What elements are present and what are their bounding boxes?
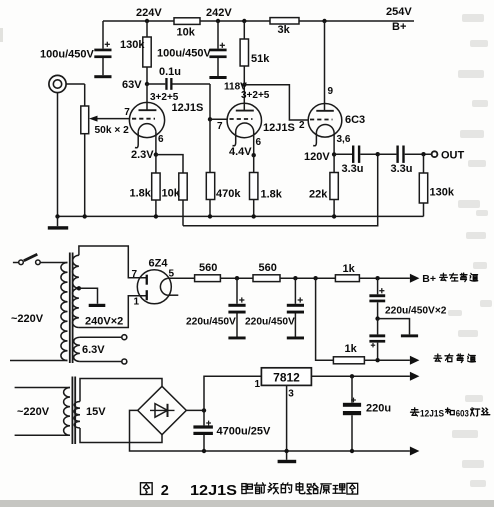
T2 primary leads xyxy=(15,387,70,389)
node 224V xyxy=(145,19,149,23)
node 220u top xyxy=(350,374,354,378)
svg-text:6Z4: 6Z4 xyxy=(149,258,169,270)
svg-text:242V: 242V xyxy=(206,7,232,19)
svg-text:120V: 120V xyxy=(304,151,330,163)
transformer T2 secondary 15V xyxy=(74,402,80,429)
svg-text:63V: 63V xyxy=(122,79,142,91)
wire 240V bottom to 6Z4 pin1 xyxy=(79,296,146,328)
resistor 51k (V2 plate load) xyxy=(243,21,245,39)
svg-text:B+: B+ xyxy=(422,273,436,285)
wire bridge plus to 7812 input xyxy=(186,409,204,411)
node 242V xyxy=(216,19,220,23)
caption xyxy=(140,483,152,495)
wire jack sleeve to ground xyxy=(57,93,59,217)
svg-text:B+: B+ xyxy=(392,21,406,33)
svg-text:9: 9 xyxy=(328,86,334,97)
arrow heater ground xyxy=(410,447,420,456)
svg-text:50k × 2: 50k × 2 xyxy=(95,125,130,136)
svg-text:12J1S: 12J1S xyxy=(172,102,204,114)
svg-text:470k: 470k xyxy=(216,188,241,200)
svg-text:12J1S: 12J1S xyxy=(263,122,295,134)
svg-text:3: 3 xyxy=(288,389,294,400)
feedback line xyxy=(183,154,378,226)
svg-text:12J1S: 12J1S xyxy=(420,409,444,420)
transformer T1 core xyxy=(69,253,71,364)
svg-text:2: 2 xyxy=(299,120,305,131)
svg-text:1: 1 xyxy=(255,379,261,390)
wire 15V bottom to bridge xyxy=(80,428,162,443)
capacitor 100u/450V (first filter) xyxy=(102,21,104,49)
svg-text:3.3u: 3.3u xyxy=(342,163,364,175)
svg-text:~220V: ~220V xyxy=(17,406,50,418)
resistor 1.8k (V2 cathode) xyxy=(253,155,255,172)
6.3V terminals xyxy=(80,336,122,338)
node 4.4V cathode V2 xyxy=(252,153,256,157)
svg-text:224V: 224V xyxy=(136,7,162,19)
svg-text:1: 1 xyxy=(134,297,140,308)
resistor 22k (6C3 cathode) xyxy=(333,154,335,172)
decorative scan noise right margin (not labeled components) xyxy=(462,14,484,22)
svg-text:OUT: OUT xyxy=(441,150,465,162)
node filter cap 1 xyxy=(235,276,239,280)
svg-text:6: 6 xyxy=(256,137,262,148)
label: to right channel xyxy=(434,354,442,362)
transformer T2 primary xyxy=(64,388,70,436)
svg-text:3.3u: 3.3u xyxy=(391,163,413,175)
resistor 10k (feedback leg) xyxy=(179,173,187,200)
svg-text:560: 560 xyxy=(199,262,217,274)
transformer T1 secondary 240Vx2 xyxy=(72,255,78,288)
node decoupling caps top xyxy=(375,276,379,280)
wire 6Z4 pin5 to filter xyxy=(168,277,195,279)
label: to 12J1S and 603 heaters xyxy=(411,408,419,416)
node V2 grid xyxy=(208,117,212,121)
wire 7812 output xyxy=(311,375,410,377)
svg-text:7812: 7812 xyxy=(273,371,300,385)
terminal OUT xyxy=(432,151,438,157)
wire bridge minus to ground line xyxy=(130,410,410,451)
ground symbol 7812 xyxy=(278,460,297,463)
svg-text:~220V: ~220V xyxy=(11,313,44,325)
capacitor 3.3u output coupling 1 xyxy=(334,153,352,155)
capacitor 3.3u output coupling 2 xyxy=(378,153,397,155)
svg-text:100u/450V: 100u/450V xyxy=(157,48,211,60)
svg-text:1.8k: 1.8k xyxy=(261,189,283,201)
wire top B+ rail xyxy=(103,20,414,22)
node 51k top xyxy=(242,19,246,23)
resistor 10k (plate feed) xyxy=(174,18,200,25)
svg-text:240V×2: 240V×2 xyxy=(85,316,123,328)
svg-text:2: 2 xyxy=(161,483,169,499)
svg-text:22k: 22k xyxy=(309,189,328,201)
ground rail upper section xyxy=(58,215,424,217)
center tap node xyxy=(77,286,81,290)
svg-text:4700u/25V: 4700u/25V xyxy=(217,426,271,438)
ground symbol upper-left xyxy=(57,216,59,226)
node 118V xyxy=(242,83,246,87)
input jack xyxy=(49,75,66,92)
resistor 560 (filter 1) xyxy=(195,275,221,282)
node between stacked caps xyxy=(375,316,379,320)
node B+ xyxy=(322,19,326,23)
capacitor 220u/450V filter 1 xyxy=(236,278,238,304)
transformer T2 core xyxy=(71,377,73,445)
svg-text:7: 7 xyxy=(124,107,130,118)
svg-text:6: 6 xyxy=(158,134,164,145)
node 2.3V cathode V1 xyxy=(154,152,158,156)
svg-text:2.3V: 2.3V xyxy=(131,149,154,161)
capacitor 4700u/25V xyxy=(203,410,205,425)
wire 10k to feedback line xyxy=(182,200,184,226)
svg-text:6.3V: 6.3V xyxy=(82,344,105,356)
bridge rectifier xyxy=(138,386,187,434)
capacitor 220u/450V x2 lower xyxy=(377,319,379,335)
wire to V2 grid xyxy=(209,84,211,119)
node between 3.3u caps xyxy=(376,152,380,156)
rectifier tube 6Z4 xyxy=(132,258,179,308)
svg-text:100u/450V: 100u/450V xyxy=(40,49,94,61)
svg-text:220u/450V: 220u/450V xyxy=(186,317,236,328)
wire cathode to 10k feedback resistor xyxy=(156,155,183,173)
svg-text:7: 7 xyxy=(132,269,138,280)
svg-text:130k: 130k xyxy=(430,187,455,199)
wire T1 primary bottom xyxy=(10,360,68,362)
capacitor 100u/450V (second filter) xyxy=(217,21,219,49)
ground stub of stacked caps xyxy=(378,319,410,335)
node right-channel feed xyxy=(313,276,317,280)
mains switch xyxy=(13,262,19,264)
svg-text:1k: 1k xyxy=(343,263,356,275)
wire 7812 pin3 to ground xyxy=(286,385,288,459)
svg-text:1k: 1k xyxy=(345,343,358,355)
transformer T1 6.3V winding xyxy=(74,337,80,361)
wire jack to volume pot xyxy=(66,83,85,85)
svg-text:3k: 3k xyxy=(278,24,291,36)
svg-text:3,6: 3,6 xyxy=(337,134,351,145)
capacitor 220u/450V x2 upper xyxy=(377,278,379,294)
svg-text:130k: 130k xyxy=(120,39,145,51)
resistor 3k xyxy=(270,18,299,24)
wire down to right channel 1k xyxy=(316,278,334,360)
svg-text:12J1S: 12J1S xyxy=(190,483,237,499)
resistor 1k (right channel) xyxy=(333,357,364,364)
node 120V cathode 6C3 xyxy=(332,152,336,156)
wire V2 plate to 6C3 grid xyxy=(244,85,308,120)
arrow 12V output xyxy=(410,372,420,381)
node 130k top xyxy=(421,152,425,156)
label: to left channel xyxy=(440,273,448,281)
capacitor 0.1u coupling xyxy=(147,83,165,85)
svg-text:7: 7 xyxy=(217,121,223,132)
triode V2 12J1S second stage xyxy=(227,85,295,156)
arrow right channel xyxy=(410,356,420,365)
wire pot to ground xyxy=(84,134,86,217)
svg-text:220u: 220u xyxy=(366,403,391,415)
node right channel xyxy=(375,358,379,362)
resistor 1k (left channel) xyxy=(335,275,359,282)
capacitor 220u xyxy=(351,376,353,403)
svg-text:0.1u: 0.1u xyxy=(159,66,181,78)
capacitor 220u/450V filter 2 xyxy=(294,278,296,304)
svg-text:1.8k: 1.8k xyxy=(130,188,152,200)
wire 15V top to bridge xyxy=(80,379,162,402)
svg-text:10k: 10k xyxy=(177,27,196,39)
resistor 470k (V2 grid leak) xyxy=(209,119,211,172)
resistor 130k (V1 plate load) xyxy=(146,21,148,37)
svg-text:51k: 51k xyxy=(251,53,270,65)
svg-text:220u/450V: 220u/450V xyxy=(245,317,295,328)
resistor 1.8k (V1 cathode) xyxy=(155,155,157,173)
triode V3 6C3 output stage xyxy=(308,21,365,154)
arrow B+ left channel xyxy=(410,274,420,283)
svg-text:560: 560 xyxy=(259,262,277,274)
node filter cap 2 xyxy=(293,276,297,280)
potentiometer 50k x2 volume xyxy=(81,106,89,134)
triode V1 12J1S first stage xyxy=(124,84,203,155)
ground symbol center tap xyxy=(79,288,98,304)
transformer T1 primary winding xyxy=(61,263,68,361)
svg-text:254V: 254V xyxy=(386,6,412,18)
regulator U1 7812 xyxy=(261,368,311,386)
wire 240V top to 6Z4 pin7 xyxy=(79,246,146,278)
svg-text:4.4V: 4.4V xyxy=(229,146,252,158)
node 63V xyxy=(145,82,149,86)
svg-text:10k: 10k xyxy=(162,188,181,200)
svg-text:220u/450V×2: 220u/450V×2 xyxy=(385,306,447,317)
svg-text:6C3: 6C3 xyxy=(345,114,365,126)
resistor 130k (output load) xyxy=(423,154,425,173)
resistor 560 (filter 2) xyxy=(253,275,280,282)
svg-text:603: 603 xyxy=(456,409,469,420)
svg-text:15V: 15V xyxy=(86,406,106,418)
